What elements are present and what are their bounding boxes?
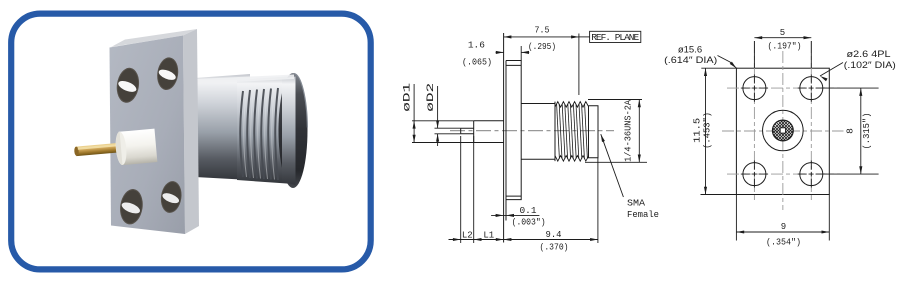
- svg-text:(.003″): (.003″): [512, 218, 546, 228]
- flange side profile: [506, 61, 521, 200]
- mounting hole top-right: [800, 77, 823, 100]
- thread crest zigzag top: [555, 102, 589, 108]
- bottom extension lines L2 L1: [461, 136, 598, 243]
- svg-text:REF. PLANE: REF. PLANE: [591, 32, 639, 43]
- horizontal centerline bottom holes: [727, 173, 840, 175]
- center boss circle: [763, 110, 804, 151]
- plate top face: [111, 29, 197, 47]
- leader dia 2.6: [820, 63, 843, 77]
- mounting hole top-left: [743, 77, 766, 100]
- gold center pin: [74, 143, 122, 157]
- flange left face extension (bushing end): [503, 33, 505, 243]
- thread flank lines: [557, 104, 588, 159]
- side view group: [402, 26, 660, 253]
- thread grooves: [240, 88, 278, 180]
- svg-text:(.453″): (.453″): [702, 112, 713, 149]
- thread start edge: [554, 102, 556, 162]
- body smooth front section: [282, 77, 296, 186]
- end rim outer light edge: [294, 74, 307, 128]
- centerline axis: [450, 130, 614, 132]
- svg-text:8: 8: [845, 128, 856, 134]
- mounting hole bottom-left: [743, 163, 766, 186]
- svg-text:SMA: SMA: [627, 197, 645, 208]
- dim 9 extension lines: [736, 195, 829, 241]
- ref plane extension line: [578, 34, 580, 96]
- svg-text:5: 5: [780, 28, 785, 38]
- svg-text:(.315″): (.315″): [861, 113, 872, 150]
- dim 9 line: [736, 231, 829, 233]
- thread crest zigzag bottom: [555, 156, 589, 162]
- svg-text:Female: Female: [627, 209, 659, 220]
- ref plane box link: [579, 36, 590, 38]
- dim 0.1 shelf: [491, 214, 539, 216]
- thread ridge highlights: [244, 89, 275, 180]
- female contact hatched circle: [762, 99, 804, 180]
- flange plate outline: [736, 68, 829, 194]
- blue rounded frame: [11, 14, 371, 270]
- dim 5 extension lines: [754, 41, 811, 68]
- dim 7.5 line: [504, 36, 579, 38]
- label D1: [402, 83, 414, 112]
- labels L2 L1 9.4: [462, 230, 569, 253]
- svg-text:(.295): (.295): [528, 42, 556, 52]
- thread spec extension lines: [585, 100, 647, 163]
- horizontal centerline middle: [722, 130, 844, 132]
- svg-text:(.065): (.065): [462, 58, 492, 68]
- center pin square: [780, 128, 785, 133]
- dim 1.6 text: [462, 40, 492, 67]
- leader dia 15.6: [718, 56, 737, 69]
- dim 0.1 text: [512, 206, 546, 227]
- body end rim dark band: [279, 73, 308, 188]
- svg-text:7.5: 7.5: [535, 26, 550, 36]
- flange chamfer lines: [506, 65, 521, 196]
- hole bottom-left: [118, 188, 145, 226]
- D1 extension lines: [412, 121, 474, 143]
- hole bottom-right: [159, 180, 184, 215]
- svg-text:ø15.6: ø15.6: [678, 45, 702, 56]
- dim 7.5 text: [528, 26, 556, 53]
- dim D2 line: [437, 86, 439, 128]
- label D2: [425, 83, 437, 112]
- vertical centerline middle: [782, 51, 784, 210]
- svg-text:(.102″ DIA): (.102″ DIA): [844, 60, 896, 71]
- 3D connector photo group: [74, 29, 308, 234]
- body cylinder: [521, 104, 555, 160]
- svg-text:ø2.6 4PL: ø2.6 4PL: [847, 49, 891, 60]
- thread spec label: [623, 100, 634, 162]
- plate front face: [110, 36, 186, 235]
- dim 1.6 arrows: [496, 51, 504, 53]
- svg-text:L2: L2: [462, 231, 473, 241]
- dim 11.5 line: [705, 68, 707, 194]
- svg-text:1.6: 1.6: [468, 40, 485, 50]
- dim 11.5 extension lines: [701, 68, 738, 194]
- dim 8 line: [860, 88, 862, 174]
- body threaded barrel: [237, 76, 294, 184]
- plate side face: [183, 29, 199, 234]
- dim D1 line: [413, 84, 415, 143]
- body rear barrel: [195, 74, 250, 180]
- white insulator bushing: [114, 129, 157, 166]
- smooth end section: [589, 106, 599, 158]
- hole top-left: [115, 66, 142, 104]
- svg-text:øD2: øD2: [425, 83, 437, 112]
- svg-text:(.354″): (.354″): [766, 238, 801, 248]
- center contact pin D2: [461, 128, 474, 134]
- svg-text:9: 9: [781, 222, 786, 232]
- D2 extension lines: [435, 128, 461, 134]
- mounting hole bottom-right: [800, 163, 823, 186]
- dim 5 line: [754, 37, 811, 39]
- thread spec dim line: [638, 100, 640, 163]
- svg-text:(.370): (.370): [540, 243, 569, 253]
- front view group: [664, 28, 896, 248]
- horizontal centerline top holes: [727, 87, 840, 89]
- ref plane box: [590, 31, 641, 42]
- hole top-right: [155, 56, 180, 91]
- SMA female leader: [601, 134, 624, 197]
- vertical centerline right holes: [810, 41, 812, 200]
- svg-text:(.614″ DIA): (.614″ DIA): [664, 55, 717, 66]
- flange left face lower extension: [505, 61, 507, 221]
- insulator bushing D1: [474, 121, 504, 143]
- dim 8 extension lines: [823, 88, 879, 174]
- svg-text:øD1: øD1: [402, 83, 414, 112]
- svg-text:L1: L1: [483, 231, 494, 241]
- svg-text:(.197″): (.197″): [768, 42, 802, 52]
- body top highlight: [195, 75, 294, 85]
- svg-text:9.4: 9.4: [546, 230, 562, 240]
- bottom dim line: [449, 239, 598, 241]
- svg-text:0.1: 0.1: [520, 206, 537, 216]
- flange right face upper extension: [520, 46, 522, 61]
- svg-text:1/4-36UNS-2A: 1/4-36UNS-2A: [623, 100, 634, 162]
- vertical centerline left holes: [753, 41, 755, 200]
